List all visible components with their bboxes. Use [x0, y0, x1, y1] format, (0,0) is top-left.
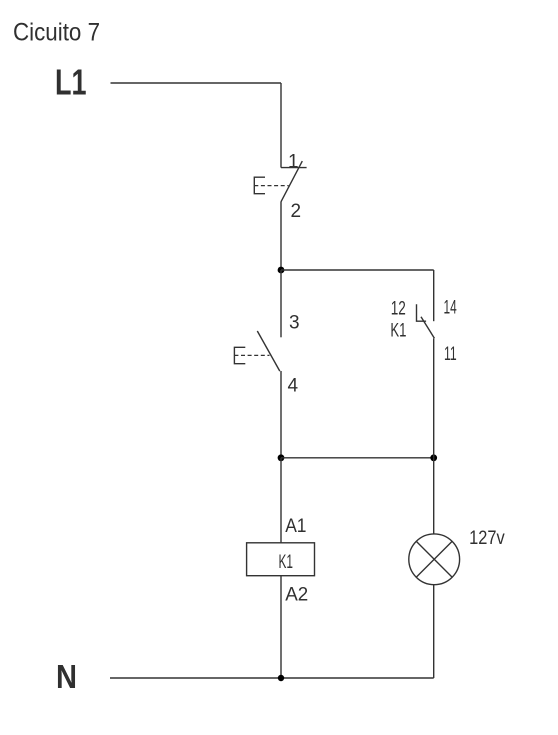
- svg-text:3: 3: [289, 313, 300, 334]
- wire node B to node C: [281, 457, 434, 459]
- pushbutton S2 actuator dashed link: [234, 354, 269, 356]
- node B junction dot: [278, 454, 285, 461]
- pushbutton S1 actuator dashed link: [254, 185, 288, 187]
- svg-text:2: 2: [291, 201, 302, 222]
- svg-text:A1: A1: [285, 516, 306, 537]
- wire node B to coil K1: [280, 458, 282, 543]
- svg-text:L1: L1: [55, 62, 87, 103]
- contact K1 pin 12 terminal L shape: [417, 304, 427, 321]
- pushbutton S1 NC fixed contact bar: [281, 167, 307, 169]
- wire S2 to node B: [280, 371, 282, 458]
- lamp H1 cross stroke 2: [416, 541, 452, 577]
- wire lamp to bottom rail: [433, 585, 435, 678]
- wire coil K1 to bottom rail: [280, 576, 282, 678]
- lamp H1 circle: [409, 534, 460, 585]
- wire node C to lamp: [433, 458, 435, 534]
- wire node A down to switch S2: [280, 270, 282, 337]
- svg-text:K1: K1: [390, 321, 406, 342]
- svg-text:14: 14: [444, 298, 457, 319]
- svg-text:N: N: [56, 659, 77, 696]
- pushbutton S1 actuator E symbol: [254, 177, 265, 194]
- wire node A to right branch: [281, 269, 434, 271]
- svg-text:127v: 127v: [469, 528, 505, 549]
- wire N horizontal rail: [110, 677, 434, 679]
- pushbutton S2 NO blade: [257, 331, 280, 371]
- svg-text:4: 4: [288, 376, 299, 397]
- pushbutton S1 NC blade: [281, 161, 302, 202]
- contact K1 blade: [421, 317, 434, 339]
- svg-text:Cicuito 7: Cicuito 7: [13, 19, 100, 47]
- svg-text:A2: A2: [285, 584, 308, 605]
- node D junction dot: [278, 675, 284, 681]
- node A junction dot: [278, 267, 285, 274]
- wire S1 to node A: [280, 202, 282, 271]
- pushbutton S2 actuator E symbol: [234, 347, 245, 363]
- node C junction dot: [430, 454, 437, 461]
- wire right branch down to contact K1 pin 14: [433, 270, 435, 321]
- coil K1 rectangle: [247, 543, 315, 576]
- svg-text:12: 12: [391, 298, 406, 319]
- svg-text:1: 1: [288, 151, 299, 172]
- wire contact K1 pin 11 to node C: [433, 338, 435, 458]
- svg-text:11: 11: [444, 344, 457, 365]
- wire L1 horizontal: [111, 82, 282, 84]
- svg-text:K1: K1: [279, 552, 294, 573]
- wire L1 drop to switch S1: [280, 83, 282, 168]
- lamp H1 cross stroke 1: [416, 541, 452, 577]
